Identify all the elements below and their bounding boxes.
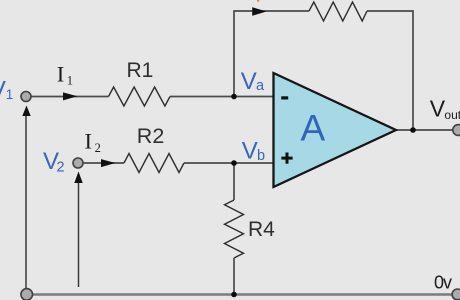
arrow current I1 on V1 wire [63,92,78,100]
artifact mark top edge [257,0,259,2]
wire: R1 to inverting input (node Va) [170,96,274,98]
resistor R2 [124,154,184,173]
wire: V2 input wire to R2 [84,162,125,164]
terminal 0v right [452,289,460,300]
svg-text:R2: R2 [137,124,164,148]
svg-text:1: 1 [67,74,73,88]
junction node Va dot [231,94,237,100]
wire: V1 input wire to R1 [31,96,109,98]
junction node Vb dot [231,160,237,166]
arrow V1 voltage (vertical, pointing up) [25,114,27,289]
terminal V1 [21,92,31,102]
wire: R2 to non-inverting input (node Vb) [184,162,274,164]
svg-text:R4: R4 [248,218,275,241]
svg-text:2: 2 [57,160,65,176]
wire: feedback loop left riser and top run [234,11,309,97]
resistor R3 feedback [309,2,367,21]
op-amp plus sign [281,157,292,160]
wire: R4 top lead from node Vb [233,163,235,200]
terminal Vout [453,125,460,136]
wire: op-amp output to Vout terminal [396,129,453,131]
arrow current on feedback wire [252,7,266,16]
wire: R4 bottom lead to 0v rail [233,258,235,295]
svg-text:V: V [241,68,257,95]
svg-text:0v: 0v [434,272,452,292]
svg-text:R1: R1 [127,59,154,82]
svg-text:a: a [256,78,265,94]
terminal ground left [21,289,33,300]
wire: 0v rail [28,293,452,296]
op-amp minus sign [281,96,288,99]
svg-text:I: I [57,62,65,87]
wire: feedback top right run and right riser to output [367,11,413,130]
svg-text:V: V [430,96,446,122]
terminal V2 [73,158,83,168]
arrow current I2 on V2 wire [101,159,116,167]
junction output node dot [410,127,416,133]
svg-text:b: b [257,148,265,164]
svg-text:out: out [444,108,460,122]
svg-text:2: 2 [95,141,101,155]
svg-text:V: V [242,137,258,164]
arrow V2 voltage (vertical, pointing up) [78,181,80,287]
resistor R1 [109,87,171,106]
resistor R4 [225,200,244,258]
junction R4/rail dot [231,292,237,298]
op-amp U1 (A) [274,73,397,187]
svg-text:I: I [85,129,93,154]
svg-text:A: A [301,108,326,149]
svg-text:1: 1 [6,87,14,102]
